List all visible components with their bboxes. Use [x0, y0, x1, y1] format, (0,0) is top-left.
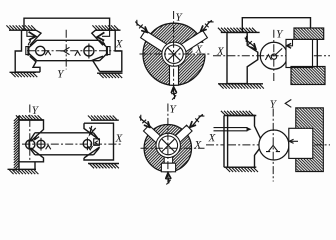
node V-plug block BR: [228, 116, 261, 168]
fixed body BR hatch bottom: [296, 159, 322, 171]
workpiece circle TR: [260, 42, 287, 69]
locator circle BL-A: [26, 140, 35, 149]
svg-text:X: X: [193, 139, 202, 151]
locator circle TL-right: [84, 46, 94, 56]
bore circle TM inner: [165, 45, 183, 63]
ground hatch TL top-right: [92, 25, 118, 30]
node V-block TR-left: [227, 32, 258, 83]
support wedge BL-right: [88, 146, 93, 150]
ground hatch TL top-left: [6, 25, 35, 30]
bore circle BM inner: [159, 136, 178, 155]
workpiece disc TM: [143, 23, 205, 85]
clamp line BR: [291, 140, 299, 142]
clamp jaw BR: [289, 128, 313, 158]
node left V-block BL: [19, 120, 44, 169]
center cross TM: [167, 48, 180, 61]
ground hatch BR bottom-left: [224, 166, 256, 168]
node right V-block BL: [84, 123, 114, 160]
wall BR-left: [224, 116, 228, 168]
clamp arrow TR right: [287, 39, 293, 45]
clamp arrow TL-left: [29, 32, 36, 40]
chuck jaw BM upper-right: [172, 125, 192, 145]
axis Y TR: [273, 30, 275, 82]
ground BL bottom-left: [8, 168, 37, 170]
wall BL-left: [18, 116, 20, 172]
support wedge BL: [46, 145, 51, 149]
chuck jaw BM upper-left: [144, 125, 164, 145]
swing clamp mark TR: [271, 54, 276, 59]
arrowhead TL mid: [61, 47, 70, 54]
clamp jaw TR right: [286, 39, 313, 67]
chuck jaw BM bottom stem: [164, 154, 172, 163]
ground TL bottom-left: [10, 71, 37, 73]
chuck jaw TM upper-right: [180, 30, 208, 52]
node left V-block TL: [15, 30, 41, 72]
axis Y BM: [167, 104, 169, 183]
locator circle BL-C: [83, 140, 91, 148]
ground hatch BL top-right: [88, 116, 117, 121]
center cross BM: [162, 139, 174, 151]
support wedge TL-1: [45, 51, 51, 55]
fixed body BR hatch top: [296, 109, 322, 128]
svg-text:X: X: [115, 38, 124, 50]
axis X BM: [141, 147, 205, 149]
axis X BL: [22, 143, 123, 145]
clamp arrow TM bottom: [173, 87, 175, 99]
svg-text:X: X: [216, 46, 225, 58]
locator circle TL-left: [36, 46, 45, 55]
ground hatch BR top-left: [221, 111, 254, 116]
base block TR bottom-right: [291, 67, 325, 85]
clamp arrow TR-left: [245, 38, 256, 50]
support wedge TL-2: [75, 51, 81, 56]
clamp arrow TM upper-right: [201, 21, 213, 32]
clamp arrow TL-right: [97, 32, 104, 40]
push rod BR: [214, 128, 248, 131]
ground hatch TR top-left: [218, 28, 257, 33]
axis Y BR: [272, 109, 274, 182]
axis X TL: [27, 50, 123, 52]
clamp chevron BL shaft-left: [34, 135, 39, 140]
clamp arrow TM upper-left: [136, 22, 148, 33]
bracket bar TR top-right: [294, 28, 324, 39]
chuck jaw TM bottom: [170, 62, 179, 85]
chuck jaw TM upper-left: [141, 30, 169, 52]
svg-text:X: X: [114, 133, 123, 145]
workpiece shaft TL: [29, 40, 107, 60]
support wedge BR center: [266, 145, 280, 151]
wire frame bracket TL: [24, 18, 110, 30]
wire frame bracket TR: [242, 18, 310, 33]
ground hatch BL top-left: [16, 115, 42, 120]
ground TL bottom-right: [97, 72, 123, 74]
bore circle TM outer: [162, 42, 186, 66]
fixed body BR hatch right: [313, 128, 322, 159]
axis X TR: [213, 55, 330, 57]
center nub BL: [94, 139, 100, 146]
workpiece disc BM: [144, 125, 191, 172]
clamp arrow BM bottom: [167, 173, 169, 184]
axis X TM: [140, 53, 212, 55]
bore circle BM outer: [156, 133, 180, 157]
axis Y TM: [173, 11, 175, 97]
ground TR bottom-left: [218, 83, 263, 85]
axis Y TL: [65, 30, 67, 70]
axis Y BL: [29, 105, 31, 161]
workpiece circle BR: [259, 130, 289, 160]
clamp arrow BL-right: [90, 126, 96, 135]
svg-text:X: X: [207, 132, 216, 144]
fixed body BR right top: [296, 108, 324, 172]
ground BL bottom-right: [88, 163, 119, 165]
chuck jaw BM bottom base: [161, 163, 175, 172]
label X TM patch: [193, 43, 206, 55]
svg-text:X: X: [194, 44, 203, 56]
axis X BR: [206, 144, 330, 146]
locator circle BL-B: [37, 140, 45, 148]
clamp arrow BM upper-right: [190, 115, 203, 128]
clamp arrow BM upper-left: [140, 117, 151, 128]
tick mark BR Y: [285, 100, 291, 108]
node right V-block TL: [92, 30, 122, 71]
workpiece shaft BL: [30, 133, 100, 155]
